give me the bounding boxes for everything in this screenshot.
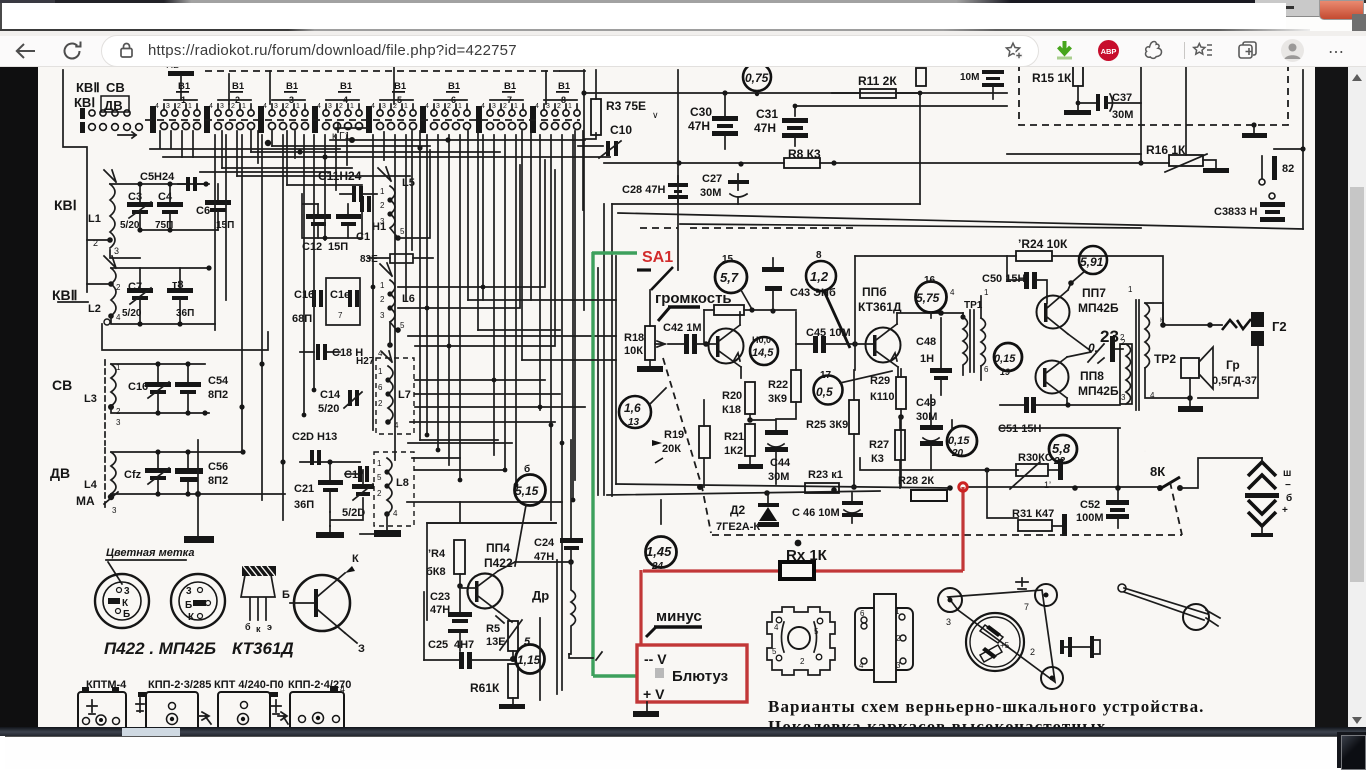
svg-text:1,45: 1,45: [646, 544, 672, 559]
capacitor C3 5/20: [120, 184, 153, 231]
junction DV: [155, 449, 245, 497]
node k G1 tick: [336, 124, 368, 132]
package KPP-2-4: [290, 684, 345, 732]
svg-text:2: 2: [380, 295, 385, 304]
capacitor C27 30M: [700, 173, 749, 204]
package KPT4: [218, 692, 288, 732]
capacitor coupling 0.23: [1088, 327, 1126, 363]
svg-text:СВ: СВ: [106, 80, 125, 95]
dashed box top right: [1019, 64, 1288, 125]
svg-text:КВⅠ: КВⅠ: [74, 95, 95, 110]
capacitor C24 47N: [534, 440, 583, 565]
resistor 82: [1259, 149, 1303, 185]
svg-text:∨: ∨: [652, 110, 659, 120]
svg-text:1: 1: [242, 103, 246, 110]
inductor Dr choke: [532, 562, 576, 654]
svg-text:4: 4: [263, 103, 267, 110]
svg-text:5,8: 5,8: [1052, 441, 1071, 456]
capacitor C28 47N: [622, 176, 688, 204]
svg-text:КПТМ-4: КПТМ-4: [86, 679, 127, 691]
svg-text:С2D Н13: С2D Н13: [292, 431, 337, 443]
svg-text:1: 1: [380, 187, 385, 196]
svg-text:5/20: 5/20: [318, 403, 339, 415]
svg-text:1: 1: [350, 103, 354, 110]
switch B1 section 7: [476, 81, 527, 133]
tab collections icon: [1236, 39, 1259, 62]
svg-text:б: б: [245, 622, 251, 632]
capacitor 10M: [960, 70, 1004, 99]
wire bundle verticals: [304, 135, 347, 415]
svg-text:4: 4: [317, 103, 321, 110]
svg-text:2: 2: [1030, 647, 1035, 657]
svg-text:L7: L7: [398, 389, 411, 401]
resistor R20 K18: [722, 382, 755, 423]
svg-text:L8: L8: [396, 477, 409, 489]
bluetooth red box: [637, 645, 747, 702]
capacitor C31 47N: [754, 106, 808, 146]
svg-text:8П2: 8П2: [208, 389, 228, 401]
wire inner box bottom: [1000, 428, 1120, 501]
svg-text:3: 3: [1121, 393, 1126, 402]
svg-text:4: 4: [209, 103, 213, 110]
dashed gang link: [663, 358, 711, 533]
svg-text:1: 1: [188, 103, 192, 110]
package KPTM-4: [78, 687, 126, 732]
svg-text:68П: 68П: [292, 313, 312, 325]
capacitor C49 30M: [916, 395, 943, 470]
wire check mark: [596, 652, 602, 660]
svg-text:В1: В1: [448, 81, 461, 92]
resistor R27 K3: [869, 417, 905, 488]
transformer TR2: [1120, 285, 1190, 451]
svg-text:КТ361Д: КТ361Д: [232, 639, 294, 658]
connector G2: [1251, 312, 1287, 346]
svg-text:1: 1: [380, 281, 385, 290]
svg-text:8: 8: [816, 250, 822, 261]
resistor R25 3K9: [806, 370, 859, 490]
wire right border: [1302, 70, 1304, 229]
svg-text:2: 2: [447, 103, 451, 110]
ground L8: [360, 530, 401, 537]
svg-text:8К: 8К: [1150, 464, 1165, 479]
capacitor C55d: [175, 452, 203, 494]
svg-text:б: б: [524, 463, 530, 475]
package KPP-2-3: [136, 692, 211, 732]
capacitor C46 10M: [792, 493, 863, 523]
svg-text:6: 6: [378, 383, 383, 392]
svg-text:3: 3: [380, 311, 385, 320]
svg-text:2: 2: [377, 489, 382, 498]
inductor L2: [88, 256, 121, 325]
svg-text:С25: С25: [428, 639, 448, 651]
star-add in pill: [1003, 40, 1025, 62]
svg-text:СВ: СВ: [52, 377, 72, 393]
svg-text:L6: L6: [402, 293, 415, 305]
junction low rail: [697, 484, 1121, 496]
circle meas 0.45/20: [947, 420, 977, 459]
svg-text:6: 6: [984, 365, 989, 374]
inductor L3: [84, 360, 121, 445]
wire riser group8: [546, 71, 585, 104]
circle meas 5.75/16: [916, 275, 947, 318]
wire C11 box: [302, 194, 362, 238]
wire riser group3: [269, 71, 271, 104]
svg-text:К110: К110: [870, 391, 894, 403]
svg-text:3: 3: [220, 103, 224, 110]
capacitor C7: [122, 268, 153, 324]
svg-text:2: 2: [557, 103, 561, 110]
svg-text:2: 2: [339, 103, 343, 110]
svg-text:С 46 10М: С 46 10М: [792, 507, 840, 519]
capacitor C25 4N7: [424, 592, 512, 669]
diode D2 7GE2A-K: [716, 493, 779, 533]
svg-text:5/20: 5/20: [122, 308, 142, 319]
wire right column: [1140, 66, 1142, 163]
vernier coil former: [855, 594, 913, 682]
svg-text:С10: С10: [610, 123, 632, 137]
wire weave risers left: [222, 131, 295, 185]
svg-text:Др: Др: [532, 588, 549, 603]
svg-text:КПТ 4/240-П0: КПТ 4/240-П0: [214, 679, 284, 691]
svg-text:15П: 15П: [328, 241, 348, 253]
capacitor Cfz: [124, 452, 171, 494]
wire upper low rail right: [860, 458, 1018, 470]
svg-text:30М: 30М: [768, 471, 789, 483]
wire tank bottom: [140, 229, 218, 231]
collections star-list: [1191, 39, 1214, 62]
svg-text:2: 2: [378, 399, 383, 408]
svg-text:3: 3: [166, 103, 170, 110]
avatar: [1280, 38, 1305, 63]
svg-text:1: 1: [895, 607, 900, 616]
node gromkost label: [655, 290, 732, 321]
capacitor C44 30M: [750, 420, 791, 484]
svg-text:17: 17: [820, 370, 832, 381]
resistor R15 1K: [1032, 66, 1096, 115]
svg-text:L3: L3: [84, 393, 97, 405]
svg-text:С54: С54: [208, 375, 229, 387]
svg-text:3: 3: [436, 103, 440, 110]
circle meas 0.75: [743, 63, 771, 96]
svg-text:МП42Б: МП42Б: [1078, 384, 1119, 398]
svg-text:1: 1: [984, 288, 989, 297]
svg-text:С51 15Н: С51 15Н: [998, 423, 1041, 435]
capacitor C14 5/20: [318, 389, 362, 415]
svg-text:10М: 10М: [960, 72, 979, 83]
svg-text:1: 1: [568, 103, 572, 110]
svg-text:бК8: бК8: [426, 566, 446, 578]
fuse limiter: [1222, 319, 1251, 330]
ABP badge: [1097, 39, 1120, 62]
svg-text:С14: С14: [320, 389, 341, 401]
capacitor C18 H27: [300, 344, 363, 360]
inductor L1: [88, 170, 119, 256]
svg-text:К: К: [352, 553, 359, 565]
resistor R30 KC: [1010, 452, 1063, 490]
svg-text:’R4: ’R4: [428, 548, 446, 560]
svg-text:С48: С48: [916, 336, 936, 348]
svg-text:3: 3: [382, 103, 386, 110]
svg-text:4: 4: [535, 103, 539, 110]
svg-text:2: 2: [285, 103, 289, 110]
junction base pp5: [703, 341, 709, 347]
junction weave: [265, 137, 451, 160]
circle meas 4.5 overlay: [750, 335, 778, 365]
junction bundle: [302, 236, 576, 503]
capacitor C43 3N6: [762, 258, 836, 311]
svg-text:П422: П422: [484, 556, 513, 570]
capacitor C30 47N: [688, 95, 738, 149]
resistor R3 75E: [584, 70, 659, 139]
wire DV tank: [111, 452, 285, 494]
svg-text:2: 2: [503, 103, 507, 110]
svg-text:ш: ш: [1283, 468, 1291, 479]
switch B1 section 4: [312, 81, 363, 133]
resistor 83E: [360, 254, 433, 265]
svg-text:4: 4: [340, 684, 345, 694]
capacitor C38 33N trimmer: [1214, 193, 1285, 222]
svg-text:ПП7: ПП7: [1082, 286, 1106, 300]
transistor pinout P422: [95, 574, 149, 628]
svg-text:Цветная метка: Цветная метка: [106, 547, 194, 559]
svg-text:R23 к1: R23 к1: [808, 469, 843, 481]
circle meas 1.2: [806, 250, 850, 348]
svg-text:R30КС: R30КС: [1018, 452, 1053, 464]
circle meas 0.15/19: [994, 343, 1022, 377]
wire weave horizontals: [200, 146, 500, 185]
svg-text:4: 4: [774, 623, 779, 632]
refresh: [60, 39, 84, 63]
svg-text:2: 2: [800, 657, 805, 666]
svg-text:5: 5: [772, 647, 777, 656]
capacitor C16 68P box: [292, 278, 360, 325]
inductor L4: [76, 448, 118, 515]
wire bundle horizontals: [150, 140, 610, 157]
wire tr2 secondary top: [1163, 303, 1222, 325]
node KV2/SV band labels: [74, 80, 129, 113]
wire dashed row through contacts: [145, 119, 580, 121]
dashed amp box top: [640, 227, 855, 229]
vernier dial bracket: [938, 578, 1063, 689]
resistor R5 13E: [486, 616, 522, 662]
svg-text:2: 2: [231, 103, 235, 110]
svg-text:6: 6: [860, 609, 865, 618]
svg-text:С44: С44: [770, 457, 791, 469]
battery B chevrons: [1245, 458, 1292, 537]
label R19 20K: [652, 429, 687, 463]
junction dashed box: [1251, 122, 1256, 127]
svg-text:Б: Б: [282, 589, 290, 601]
node H2 antenna tee: [166, 60, 194, 100]
svg-text:5,15: 5,15: [515, 484, 539, 498]
vernier shaft: [1060, 636, 1100, 658]
transistor PP4 P422: [462, 541, 515, 622]
svg-text:+: +: [1282, 505, 1288, 516]
capacitor C55: [175, 364, 201, 413]
vernier pointer rod: [1118, 584, 1220, 630]
svg-text:З: З: [358, 643, 365, 655]
svg-text:13: 13: [628, 417, 640, 428]
svg-text:Варианты схем верньерно-шкальн: Варианты схем верньерно-шкального устрой…: [768, 697, 1205, 716]
wire top dashed rail: [205, 70, 560, 72]
svg-text:ABP: ABP: [1101, 47, 1117, 56]
svg-text:С24: С24: [534, 537, 555, 549]
svg-text:В1: В1: [232, 81, 245, 92]
circle meas 5.8/22: [1049, 435, 1077, 467]
bottom window edge: [0, 727, 1366, 768]
svg-text:1: 1: [404, 103, 408, 110]
svg-text:3: 3: [946, 617, 951, 627]
capacitor C10: [599, 123, 632, 158]
wire to R16: [1141, 162, 1169, 164]
svg-text:В1: В1: [558, 81, 571, 92]
circle meas 5.15: [515, 463, 546, 566]
svg-text:4: 4: [950, 288, 955, 297]
svg-text:47Н: 47Н: [430, 604, 450, 616]
junction R8 rail: [676, 160, 681, 165]
svg-text:ПП4: ПП4: [486, 541, 510, 555]
resistor R22 3K9: [768, 312, 801, 419]
junction SV: [155, 361, 207, 415]
svg-text:L4: L4: [84, 479, 98, 491]
svg-text:ТР2: ТР2: [1154, 352, 1176, 366]
svg-text:Н0,0: Н0,0: [752, 335, 771, 345]
wire speaker loop: [1190, 346, 1258, 398]
top browser chrome: [0, 0, 1366, 67]
capacitor C22 pair: [345, 466, 369, 482]
svg-text:R25 3К9: R25 3К9: [806, 419, 848, 431]
resistor R12 stub: [916, 68, 926, 86]
ground C21: [316, 526, 344, 538]
svg-text:3: 3: [274, 103, 278, 110]
svg-text:С21: С21: [294, 483, 314, 495]
svg-text:47Н: 47Н: [688, 119, 710, 133]
capacitor C21 36P: [294, 462, 343, 512]
svg-text:R28 2К: R28 2К: [898, 475, 934, 487]
wire mid vertical: [854, 256, 856, 370]
svg-text:R29: R29: [870, 375, 890, 387]
svg-text:2: 2: [177, 103, 181, 110]
inductor L8 dashed core: [374, 452, 414, 530]
svg-text:ДВ: ДВ: [50, 465, 70, 481]
resistor R31 K47: [987, 470, 1067, 536]
resistor R24 10K: [1016, 237, 1068, 261]
node tsvetnaya metka handwriting: [106, 547, 194, 584]
svg-text:10К: 10К: [624, 345, 643, 357]
junction top rail: [581, 90, 586, 95]
svg-text:Д2: Д2: [730, 503, 746, 517]
svg-text:КВⅠ: КВⅠ: [54, 197, 77, 213]
svg-text:3: 3: [114, 246, 119, 256]
svg-text:L2: L2: [88, 303, 101, 315]
wire C10 left: [578, 145, 603, 147]
svg-text:2: 2: [896, 634, 901, 643]
svg-text:5,75: 5,75: [916, 291, 940, 305]
svg-text:83Е: 83Е: [360, 254, 378, 265]
svg-text:3: 3: [112, 506, 117, 515]
svg-text:4: 4: [371, 103, 375, 110]
svg-text:14,5: 14,5: [752, 347, 774, 359]
wire collector pp6: [897, 312, 963, 314]
svg-text:С31: С31: [756, 107, 778, 121]
resistor R11 2K: [832, 74, 920, 98]
svg-text:С56: С56: [208, 461, 228, 473]
svg-text:МП42Б: МП42Б: [1078, 301, 1119, 315]
resistor feedback top: [704, 305, 796, 344]
capacitor C8 36P: [167, 268, 194, 324]
circle meas 5.7: [715, 254, 753, 311]
svg-text:Гр: Гр: [1226, 358, 1240, 372]
svg-text:С45 10М: С45 10М: [806, 327, 851, 339]
switch B1 section 1: [150, 81, 201, 133]
svg-text:э: э: [267, 622, 272, 632]
svg-text:7: 7: [338, 311, 343, 320]
svg-text:В1: В1: [340, 81, 353, 92]
svg-text:19: 19: [1000, 367, 1010, 377]
transistor PP5: [706, 312, 744, 378]
fragment icon: [1143, 39, 1165, 61]
capacitor C4 75P: [155, 184, 183, 231]
svg-text:ППб: ППб: [862, 285, 887, 299]
svg-text:4: 4: [481, 103, 485, 110]
svg-text:КПП-2‧3/285: КПП-2‧3/285: [148, 679, 211, 691]
svg-text:20: 20: [951, 448, 964, 459]
svg-text:R18: R18: [624, 332, 644, 344]
svg-text:С12: С12: [302, 241, 322, 253]
svg-text:36П: 36П: [294, 499, 314, 511]
svg-text:36П: 36П: [176, 308, 194, 319]
resistor Rx 1K: [780, 540, 828, 579]
wire KV1 tank: [87, 184, 206, 258]
svg-text:5: 5: [377, 473, 382, 482]
svg-text:R20: R20: [722, 390, 742, 402]
svg-text:0,15: 0,15: [994, 353, 1016, 365]
url pill: [101, 35, 1039, 67]
svg-text:Н1: Н1: [372, 221, 386, 233]
svg-text:С28 47Н: С28 47Н: [622, 184, 665, 196]
svg-text:R19’: R19’: [664, 429, 687, 441]
resistor R29 K18: [870, 369, 906, 487]
switch 8K: [1150, 458, 1262, 535]
wire detector box top: [427, 502, 556, 620]
svg-text:4: 4: [859, 661, 864, 670]
ground bluetooth: [633, 702, 659, 717]
transistor PP6: [855, 285, 902, 377]
circle meas 0.5/17: [814, 370, 893, 405]
svg-text:минус: минус: [656, 608, 702, 625]
svg-text:23: 23: [1100, 327, 1119, 346]
svg-text:В1: В1: [504, 81, 517, 92]
svg-text:1,6: 1,6: [624, 401, 641, 415]
svg-text:30М: 30М: [916, 411, 937, 423]
svg-text:1Н: 1Н: [920, 353, 934, 365]
svg-text:0,5ГД-37: 0,5ГД-37: [1212, 375, 1257, 387]
svg-text:7ГЕ2А-К: 7ГЕ2А-К: [716, 521, 760, 533]
ground tr2: [1178, 398, 1203, 412]
wire R8 rail: [604, 154, 1141, 163]
switch B1 section 8: [530, 81, 581, 133]
svg-text:3: 3: [328, 103, 332, 110]
wire SV tank: [111, 364, 209, 413]
svg-text:R11 2К: R11 2К: [858, 74, 897, 88]
svg-text:к: к: [256, 624, 261, 634]
svg-text:МА: МА: [76, 494, 95, 508]
resistor R21 1K2: [724, 424, 763, 469]
circle meas 1.6/13: [619, 388, 666, 428]
svg-text:100М: 100М: [1076, 512, 1104, 524]
switch SA1 contact: [637, 267, 673, 290]
back arrow: [14, 39, 38, 63]
